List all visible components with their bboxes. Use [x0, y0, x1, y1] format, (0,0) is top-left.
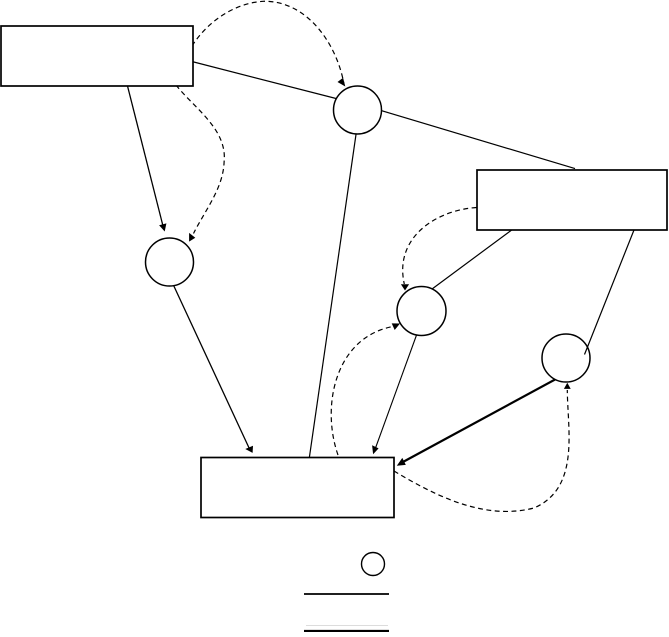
- arrowhead: bold T3 to rect3: [397, 458, 406, 466]
- bold solid arrow shaft circle T3 to rect3: [402, 379, 556, 463]
- wire: solid line rect2 to circle T3 (drawn over circle): [585, 230, 635, 355]
- rectangle node rect3 (bottom): [201, 458, 394, 518]
- circle node T3: [542, 334, 590, 382]
- arrowhead: dashed rect1 to T1: [338, 78, 346, 87]
- legend: faint line: [306, 625, 388, 627]
- wire: solid line circle T1 to rect2: [378, 110, 575, 169]
- dashed curve rect1 to circle T4: [176, 85, 224, 234]
- arrowhead: dashed rect3 to T2 (points up-right): [392, 323, 400, 330]
- wire: solid line rect2 to circle T2: [428, 229, 513, 292]
- dashed curve rect1 to circle T1: [192, 1, 344, 84]
- circle node T2: [397, 287, 446, 336]
- solid arrow shaft circle T4 to rect3: [172, 282, 250, 450]
- legend: small circle symbol: [362, 553, 385, 576]
- solid arrow shaft rect1 to circle T4: [127, 84, 163, 226]
- arrowhead: dashed rect1 to T4 (points right): [189, 233, 195, 242]
- legend: thin line symbol: [304, 593, 389, 595]
- solid arrow shaft circle T2 to rect3: [376, 331, 419, 448]
- arrowhead: solid T4 to rect3: [245, 446, 253, 453]
- arrowhead: solid T2 to rect3: [372, 445, 379, 454]
- legend: thick line symbol: [304, 630, 389, 632]
- dashed curve rect2 to circle T2: [403, 208, 477, 285]
- arrowhead: dashed rect3 to T3 (points up): [564, 383, 571, 389]
- wire: solid line circle T1 to rect3: [309, 131, 357, 460]
- dashed curve rect3 to circle T3: [394, 390, 569, 511]
- circle node T4: [146, 238, 194, 286]
- arrowhead: solid rect1 to T4: [159, 223, 166, 231]
- arrowhead: dashed rect2 to T2 (points down): [401, 284, 409, 290]
- dashed curve rect3 to circle T2: [331, 327, 393, 456]
- rectangle node rect1 (top-left): [1, 26, 193, 86]
- rectangle node rect2 (top-right): [477, 170, 667, 230]
- wire: solid line rect1 to circle T1: [186, 60, 338, 99]
- circle node T1: [334, 86, 382, 134]
